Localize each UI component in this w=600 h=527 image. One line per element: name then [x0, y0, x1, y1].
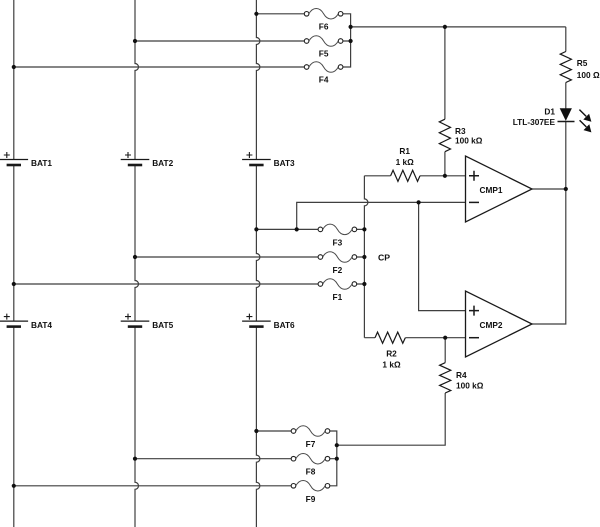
junction R3 top [443, 25, 447, 29]
wire column 1 upper segment [13, 0, 15, 160]
svg-text:F4: F4 [319, 75, 329, 85]
junction mid bus F1 [362, 282, 366, 286]
wire from column 1 to fuse F4 [14, 66, 305, 68]
svg-text:F5: F5 [319, 49, 329, 59]
wire LED cathode down to CMP2 output [532, 122, 566, 324]
wire from column 1 to fuse F9 [14, 485, 291, 487]
fuse F8 [291, 453, 330, 464]
wire CMP1 output [532, 188, 566, 190]
battery BAT4 [0, 314, 28, 327]
junction col1 F1 [12, 282, 16, 286]
resistor R5 zigzag [560, 52, 571, 83]
battery BAT3 [242, 152, 271, 165]
wire from column 1 to fuse F1 [14, 283, 318, 285]
wire from column 2 to fuse F5 [135, 40, 304, 42]
svg-text:R1: R1 [399, 146, 410, 156]
svg-text:F8: F8 [306, 467, 316, 477]
wire bottom tap to R4 [337, 393, 445, 445]
wire column 2 middle segment with hop over F1 wire [135, 165, 139, 321]
svg-text:R3: R3 [455, 126, 466, 136]
op-amp comparator U CMP1 [466, 156, 533, 222]
svg-text:F6: F6 [319, 21, 329, 31]
battery BAT2 [121, 152, 150, 165]
svg-text:100 kΩ: 100 kΩ [456, 380, 484, 390]
junction col2 F5 [133, 39, 137, 43]
fuse F5 [304, 36, 343, 47]
fuse F6 [304, 9, 343, 19]
svg-text:BAT6: BAT6 [274, 320, 295, 330]
fuse F9 [291, 481, 330, 492]
junction col2 F2 [133, 255, 137, 259]
svg-text:F3: F3 [333, 237, 343, 247]
wire R1 leads on CMP1 non-inverting line [364, 175, 465, 177]
fuse F2 [318, 252, 357, 263]
svg-text:1 kΩ: 1 kΩ [382, 359, 401, 369]
junction CMP1 minus branch [417, 200, 421, 204]
junction mid bus F2 [362, 255, 366, 259]
wire riser from F3 wire up to CMP1 inverting input [297, 202, 466, 229]
svg-text:F2: F2 [333, 265, 343, 275]
wire column 2 upper segment with hop over F4 wire [135, 0, 139, 160]
svg-text:F1: F1 [333, 292, 343, 302]
junction CMP1 output LED line [564, 187, 568, 191]
svg-text:BAT5: BAT5 [152, 320, 173, 330]
battery BAT5 [121, 314, 150, 327]
svg-text:R5: R5 [577, 58, 588, 68]
resistor R4 zigzag [440, 363, 451, 393]
junction col3 F3 [254, 227, 258, 231]
junction bottom bus tap [335, 443, 339, 447]
junction col3 F6 [254, 12, 258, 16]
fuse F3 [318, 224, 357, 235]
svg-text:CMP2: CMP2 [480, 320, 503, 330]
svg-text:D1: D1 [544, 106, 555, 116]
fuse F1 [318, 279, 357, 290]
battery BAT1 [0, 152, 28, 165]
svg-text:R4: R4 [456, 370, 467, 380]
svg-text:100 kΩ: 100 kΩ [455, 136, 483, 146]
svg-text:BAT2: BAT2 [152, 158, 173, 168]
svg-text:100 Ω: 100 Ω [577, 70, 600, 80]
wire R2 leads on CMP2 inverting line [364, 337, 465, 339]
wire top tap to R5 and R3 [351, 26, 566, 28]
wire from column 2 to fuse F2 [135, 256, 318, 258]
fuse F4 [304, 62, 343, 73]
wire R5 leads and LED anode [565, 27, 567, 109]
LED D1 [558, 108, 592, 132]
junction mid bus F3 [362, 227, 366, 231]
wire from column 3 to fuse F3 [256, 228, 318, 230]
junction col1 F4 [12, 65, 16, 69]
fuse F7 [291, 426, 330, 437]
svg-text:F7: F7 [306, 439, 316, 449]
svg-text:BAT3: BAT3 [274, 158, 295, 168]
junction R3 bottom CMP1 plus [443, 174, 447, 178]
junction col1 F9 [12, 484, 16, 488]
wire column 1 lower segment [13, 327, 15, 527]
wire from column 2 to fuse F8 [135, 458, 291, 460]
wire R4 upper lead [444, 338, 446, 363]
svg-text:LTL-307EE: LTL-307EE [513, 117, 556, 127]
wire from column 3 to fuse F7 [256, 430, 291, 432]
svg-text:BAT4: BAT4 [31, 320, 52, 330]
battery BAT6 [242, 314, 271, 327]
junction bottom bus F8 [335, 457, 339, 461]
svg-text:R2: R2 [386, 349, 397, 359]
resistor R1 zigzag [391, 170, 420, 181]
wire bottom bus joining F7 F8 F9 outputs [330, 431, 337, 486]
resistor R3 zigzag [439, 119, 450, 152]
svg-text:1 kΩ: 1 kΩ [396, 157, 415, 167]
junction top bus tap [349, 25, 353, 29]
wire from column 3 to fuse F6 [256, 13, 304, 15]
junction riser F3 wire [295, 227, 299, 231]
wire column 3 middle segment with hops over F2 and F1 wires [256, 165, 260, 321]
junction col2 F8 [133, 457, 137, 461]
op-amp comparator U CMP2 [466, 291, 533, 357]
svg-text:CP: CP [378, 253, 390, 263]
wire column 3 lower segment with hops over F8 and F9 wires [256, 327, 260, 527]
wire column 1 middle segment [13, 165, 15, 321]
wire branch from CMP1 inverting line down to CMP2 non-inverting input [419, 202, 466, 310]
wire R3 leads [444, 27, 446, 176]
resistor R2 zigzag [375, 332, 405, 343]
junction top bus F5 [349, 39, 353, 43]
svg-text:BAT1: BAT1 [31, 158, 52, 168]
wire middle bus CP joining F3 F2 F1 outputs to R1 and R2, hop over CMP1 inverting line [357, 176, 368, 338]
wire top bus joining F6 F5 F4 outputs [343, 14, 351, 67]
svg-text:CMP1: CMP1 [480, 185, 503, 195]
junction R4 top CMP2 minus [443, 336, 447, 340]
svg-text:F9: F9 [306, 494, 316, 504]
junction col3 F7 [254, 429, 258, 433]
wire column 2 lower segment with hop over F9 wire [135, 327, 139, 527]
wire column 3 upper segment with hops over F5 and F4 wires [256, 0, 260, 160]
